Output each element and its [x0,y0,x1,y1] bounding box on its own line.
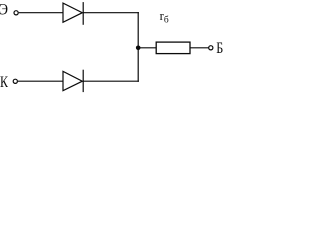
wire resistor to base terminal [190,47,209,49]
diode VD1 triangle [63,3,82,22]
vertical bus wire [137,12,139,82]
svg-text:К: К [0,74,8,91]
wire emitter to diode VD1 [19,12,64,14]
terminal circle (emitter) [14,11,18,15]
terminal circle (base) [209,46,213,50]
junction node dot [136,46,141,51]
wire VD1 to bus [83,12,139,14]
wire VD2 to bus [83,80,139,82]
wire node to resistor [138,47,156,49]
diode VD2 cathode bar [82,70,84,92]
wire collector to diode VD2 [18,80,63,82]
terminal circle (collector) [13,79,17,83]
svg-text:б: б [164,14,169,25]
svg-text:Э: Э [0,2,8,19]
resistor r_b body [156,42,190,54]
diode VD2 triangle [63,71,82,90]
diode VD1 cathode bar [82,2,84,25]
svg-text:Б: Б [216,40,223,57]
